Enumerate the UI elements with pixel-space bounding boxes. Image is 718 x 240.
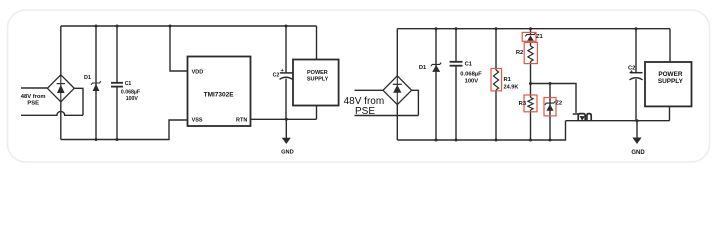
svg-text:R1: R1: [504, 77, 512, 83]
svg-text:GND: GND: [631, 150, 645, 156]
svg-text:GND: GND: [281, 149, 294, 155]
svg-text:SUPPLY: SUPPLY: [307, 76, 329, 82]
svg-text:VSS: VSS: [192, 118, 203, 124]
svg-text:C1: C1: [125, 81, 132, 87]
svg-text:VDD: VDD: [192, 69, 204, 75]
svg-text:TMI7302E: TMI7302E: [204, 91, 235, 98]
svg-text:48V from: 48V from: [21, 94, 46, 100]
svg-text:D1: D1: [419, 65, 427, 71]
svg-text:C2: C2: [273, 73, 280, 79]
svg-text:POWER: POWER: [307, 70, 328, 76]
svg-text:D1: D1: [84, 75, 91, 81]
svg-text:+: +: [281, 68, 284, 74]
svg-text:+: +: [630, 70, 633, 76]
svg-text:0.068µF: 0.068µF: [121, 90, 140, 96]
svg-text:R2: R2: [516, 50, 523, 56]
svg-text:100V: 100V: [126, 96, 139, 102]
svg-text:0.068µF: 0.068µF: [460, 71, 482, 77]
svg-text:SUPPLY: SUPPLY: [658, 78, 684, 85]
svg-text:100V: 100V: [465, 79, 479, 85]
svg-text:R3: R3: [519, 101, 527, 107]
svg-text:24.9K: 24.9K: [504, 84, 519, 90]
svg-text:Z2: Z2: [555, 101, 562, 107]
svg-text:Z1: Z1: [536, 34, 544, 40]
svg-text:C1: C1: [465, 62, 473, 68]
svg-text:PSE: PSE: [355, 106, 375, 117]
svg-text:PSE: PSE: [27, 100, 39, 106]
svg-text:RTN: RTN: [236, 118, 247, 124]
